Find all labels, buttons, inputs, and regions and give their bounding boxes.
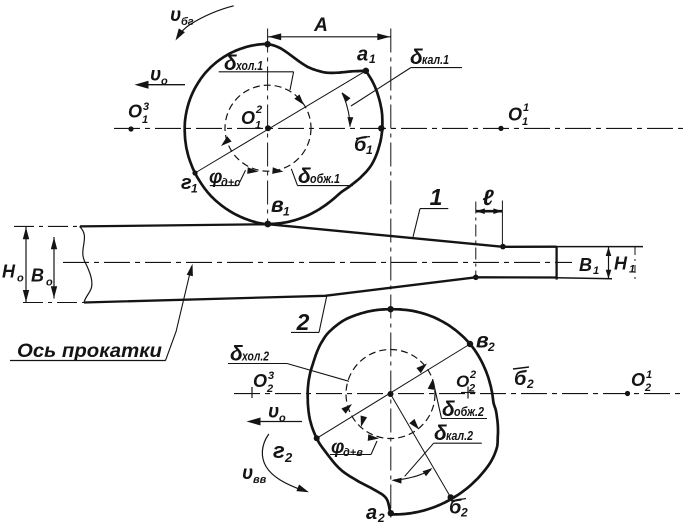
rotation arrowhead lower bottom xyxy=(368,434,379,441)
svg-text:д+с: д+с xyxy=(221,177,240,189)
svg-text:О: О xyxy=(456,372,469,391)
svg-text:г: г xyxy=(273,438,285,463)
svg-text:1: 1 xyxy=(366,143,373,157)
svg-text:Ось прокатки: Ось прокатки xyxy=(17,341,162,362)
svg-text:1: 1 xyxy=(646,369,652,381)
node O1-3 xyxy=(128,126,133,131)
horizontal center line of lower roll O2 xyxy=(234,393,685,395)
dimension A left arrow xyxy=(268,33,281,40)
svg-text:υ: υ xyxy=(150,65,161,86)
lower roll 2 cam outline xyxy=(308,309,498,514)
svg-text:О: О xyxy=(241,108,255,128)
v0 upper arrow xyxy=(140,84,185,86)
svg-text:В: В xyxy=(31,266,44,286)
svg-text:о: о xyxy=(279,413,286,425)
dim H0 bottom arrow xyxy=(23,290,29,302)
dim B0 top arrow xyxy=(51,237,57,249)
svg-text:1: 1 xyxy=(191,182,198,196)
svg-text:вв: вв xyxy=(253,474,267,486)
H1 extension line xyxy=(634,247,636,283)
svg-text:хол.2: хол.2 xyxy=(241,349,269,364)
arrowhead lower arc right xyxy=(423,468,433,476)
dim H1 bottom arrow xyxy=(606,270,612,279)
rotation arrowhead upper right xyxy=(294,94,304,105)
upper roll 1 cam outline xyxy=(185,44,383,224)
svg-text:а: а xyxy=(357,44,368,66)
svg-text:б: б xyxy=(514,368,527,390)
dim B0 bottom arrow xyxy=(51,286,57,298)
svg-text:υ: υ xyxy=(242,463,253,484)
vbg arrowhead xyxy=(176,28,185,40)
svg-text:обж.1: обж.1 xyxy=(310,171,340,186)
svg-text:кал.1: кал.1 xyxy=(422,52,449,67)
node O1-1 xyxy=(498,126,503,131)
svg-text:В: В xyxy=(579,255,592,275)
vvv arrowhead xyxy=(296,485,309,493)
dim l right arrow xyxy=(493,208,502,214)
svg-text:Н: Н xyxy=(2,262,16,282)
arrowhead upper arc top xyxy=(342,92,351,102)
rotation arrowhead lower on b2 line xyxy=(409,419,419,430)
svg-text:3: 3 xyxy=(268,370,274,382)
node g2 xyxy=(314,435,320,441)
arrowhead lower arc left xyxy=(392,478,402,484)
axis leader arrowhead xyxy=(187,264,193,276)
svg-text:хол.1: хол.1 xyxy=(235,58,263,73)
node b2 xyxy=(448,494,454,500)
rotation arrowhead upper bottom-right xyxy=(272,167,283,174)
svg-text:О: О xyxy=(508,105,522,125)
svg-text:о: о xyxy=(46,277,53,289)
bar top edge phantom left end xyxy=(14,225,80,227)
node O1-2 center dot xyxy=(265,125,271,131)
dim H1 line xyxy=(608,247,610,279)
lower roll dashed base circle xyxy=(346,350,435,439)
upper roll diagonal a1-g1 xyxy=(195,71,366,173)
svg-text:О: О xyxy=(128,102,142,122)
dim l right extension line xyxy=(501,201,503,247)
svg-text:О: О xyxy=(631,370,645,390)
arc of calibration sector lower roll xyxy=(394,470,431,480)
dimension A line xyxy=(267,36,391,38)
svg-text:2: 2 xyxy=(526,377,534,391)
dim H0 top arrow xyxy=(23,227,29,239)
rotation arrowhead lower on v2 line xyxy=(416,364,427,374)
svg-text:1: 1 xyxy=(430,184,443,210)
svg-text:υ: υ xyxy=(170,5,181,26)
bar bottom edge xyxy=(84,277,557,302)
arc of calibration sector upper roll xyxy=(342,93,350,127)
rotation arrowhead upper bottom-left xyxy=(247,167,258,174)
svg-text:кал.2: кал.2 xyxy=(446,428,474,443)
dimension A right arrow xyxy=(377,33,390,40)
arrowhead upper arc bottom xyxy=(347,117,353,127)
node on upper taper for l dim xyxy=(500,244,506,250)
node b1 xyxy=(378,125,384,131)
node O2-1 xyxy=(625,391,630,396)
node a1 xyxy=(363,68,369,74)
svg-text:1: 1 xyxy=(255,120,261,132)
node top of upper cam xyxy=(264,41,270,47)
svg-text:2: 2 xyxy=(468,383,475,395)
dim B0 line xyxy=(53,237,55,299)
node v1 xyxy=(264,221,271,228)
horizontal center line of upper roll O1 xyxy=(114,127,688,129)
upper roll dashed base circle xyxy=(225,85,311,171)
dim l left arrow xyxy=(476,208,485,214)
svg-text:2: 2 xyxy=(644,382,651,394)
svg-text:2: 2 xyxy=(460,506,468,520)
svg-text:а: а xyxy=(366,502,377,524)
rotation arrowhead upper left xyxy=(221,136,232,146)
lower roll diagonal v2-g2 xyxy=(317,344,470,438)
dimension l line xyxy=(476,210,503,213)
node a2 xyxy=(388,510,394,516)
dim H1 top arrow xyxy=(606,247,612,256)
node v2 xyxy=(467,341,473,347)
long vertical center line through lower roll xyxy=(390,29,392,523)
node g1 xyxy=(192,170,197,175)
svg-text:о: о xyxy=(17,273,24,285)
svg-text:2: 2 xyxy=(284,450,293,465)
rolling axis center line xyxy=(63,261,572,263)
rotation arrowhead lower on g2 line xyxy=(341,404,352,414)
node O2-2 cross xyxy=(467,387,469,399)
rotation arrowhead lower below g2 line xyxy=(361,416,368,428)
svg-text:1: 1 xyxy=(283,205,290,219)
svg-text:1: 1 xyxy=(629,264,635,276)
svg-text:Н: Н xyxy=(614,254,628,274)
svg-text:1: 1 xyxy=(522,116,528,128)
lower roll line to b2 xyxy=(391,394,451,497)
v0 lower arrow xyxy=(252,421,302,423)
svg-text:2: 2 xyxy=(377,511,385,524)
svg-text:2: 2 xyxy=(255,104,262,116)
svg-text:о: о xyxy=(161,76,168,88)
svg-text:2: 2 xyxy=(266,383,273,395)
vertical center line through upper roll xyxy=(267,29,269,227)
bar top edge xyxy=(80,224,557,247)
bar right end cap xyxy=(555,246,557,279)
svg-text:д+в: д+в xyxy=(343,447,363,459)
dim l left extension line xyxy=(475,202,477,277)
svg-text:2: 2 xyxy=(296,309,310,335)
svg-text:1: 1 xyxy=(523,102,529,114)
svg-text:1: 1 xyxy=(142,114,148,126)
svg-text:1: 1 xyxy=(369,52,376,66)
bar bottom edge thin continuation xyxy=(557,278,612,279)
node O2 center dot xyxy=(388,391,394,397)
svg-text:1: 1 xyxy=(593,265,599,277)
bar bottom edge phantom left end xyxy=(23,302,84,304)
svg-text:обж.2: обж.2 xyxy=(454,404,485,419)
rotation arrowhead lower near O2-2 xyxy=(428,379,435,390)
svg-text:О: О xyxy=(253,371,267,391)
node O2-3 tick xyxy=(251,387,253,398)
break wavy line at bar left end xyxy=(80,226,92,302)
node on lower taper for l dim xyxy=(473,275,479,281)
svg-text:2: 2 xyxy=(487,340,495,354)
node top of lower cam xyxy=(387,306,393,312)
svg-text:ℓ: ℓ xyxy=(482,185,494,210)
svg-text:3: 3 xyxy=(143,101,149,113)
svg-text:А: А xyxy=(313,15,328,36)
svg-text:υ: υ xyxy=(268,402,279,423)
svg-text:2: 2 xyxy=(469,369,476,381)
bar top edge thin continuation xyxy=(557,246,643,248)
dim H0 line xyxy=(25,227,27,302)
